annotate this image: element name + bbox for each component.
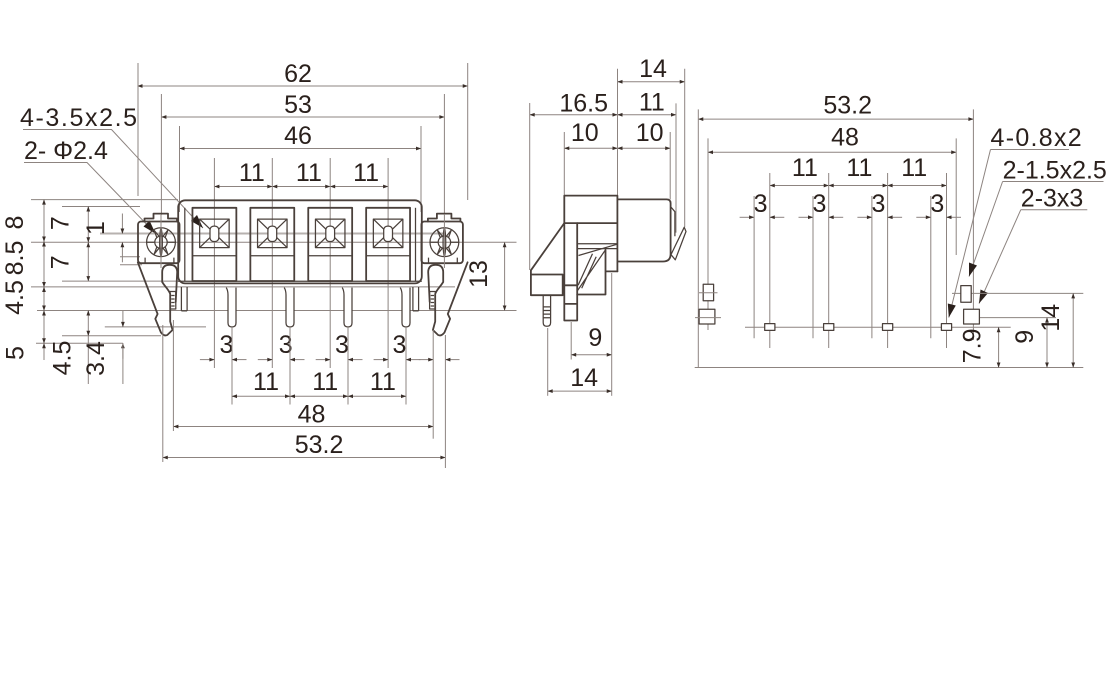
pin side [543, 295, 550, 326]
pin 3 [342, 288, 352, 327]
center reference extension [617, 69, 619, 196]
svg-text:10: 10 [571, 119, 599, 147]
left tall pad 1.5x2.5 [703, 284, 713, 301]
dim 16.5 [530, 90, 618, 270]
svg-text:11: 11 [353, 159, 379, 187]
svg-text:13: 13 [465, 260, 493, 288]
right square pad 3x3 [964, 309, 980, 324]
svg-text:4-3.5x2.5: 4-3.5x2.5 [20, 104, 139, 132]
dim 9 [1011, 318, 1047, 368]
dim 53.2 [698, 92, 973, 368]
dim 10 left [564, 119, 617, 196]
svg-text:11: 11 [901, 154, 927, 182]
wedge bracket [531, 223, 564, 295]
svg-text:53: 53 [284, 91, 312, 119]
dim 53.2 bottom [163, 325, 446, 468]
dims 11 x3 [770, 154, 947, 348]
svg-text:14: 14 [570, 364, 598, 392]
tower [564, 196, 617, 272]
terminal module 4 [366, 208, 410, 281]
svg-text:3: 3 [813, 190, 827, 218]
svg-text:14: 14 [639, 55, 667, 83]
svg-text:2-1.5x2.5: 2-1.5x2.5 [1003, 157, 1107, 185]
left dim column B: 7 / 7 / 4.5 [47, 207, 89, 385]
svg-text:3: 3 [220, 331, 234, 359]
mounting leg side [564, 223, 577, 320]
svg-text:11: 11 [253, 368, 279, 396]
dim 11 [618, 88, 677, 232]
dim 9 bottom [571, 322, 612, 360]
svg-text:3.4: 3.4 [82, 341, 110, 376]
terminal module 1 [192, 208, 236, 281]
bottom reference line [695, 367, 1084, 369]
svg-text:9: 9 [1011, 330, 1039, 344]
svg-text:46: 46 [284, 122, 312, 150]
svg-text:9: 9 [588, 324, 602, 352]
svg-text:11: 11 [639, 88, 665, 116]
svg-text:7: 7 [47, 255, 75, 269]
label 2-1.5x2.5 with leader [969, 157, 1107, 277]
dim 62 [138, 60, 468, 200]
cylinder chamfer flange [671, 207, 675, 237]
dim 53 [161, 91, 444, 215]
dim 13 right [465, 242, 505, 310]
svg-text:53.2: 53.2 [823, 92, 872, 120]
svg-text:3: 3 [930, 190, 944, 218]
dim 48 [708, 123, 956, 330]
inner lines between tower and cylinder [577, 244, 617, 249]
body inner walls [184, 208, 186, 281]
helper line square pad right [979, 317, 1056, 319]
clamp flag [671, 227, 686, 259]
helper line pad top right [952, 292, 1083, 294]
svg-text:48: 48 [298, 401, 326, 429]
right tall pad 1.5x2.5 [961, 286, 971, 303]
dims 3 x4 [740, 190, 961, 338]
svg-text:10: 10 [636, 119, 664, 147]
pin pad 3 [883, 324, 893, 331]
svg-text:5: 5 [2, 346, 30, 360]
svg-text:11: 11 [792, 154, 818, 182]
body outline [178, 200, 422, 283]
left dim stack extension lines [31, 200, 517, 344]
svg-text:7: 7 [47, 216, 75, 230]
svg-text:3: 3 [871, 190, 885, 218]
label 2-3x3 with leader [979, 185, 1087, 304]
dim 10 right [618, 119, 671, 200]
svg-text:48: 48 [831, 123, 859, 151]
svg-text:2-3x3: 2-3x3 [1021, 185, 1084, 213]
svg-text:11: 11 [370, 368, 396, 396]
svg-text:7.9: 7.9 [958, 329, 986, 364]
left dim column C: 1 / 3.4 [82, 214, 123, 385]
svg-text:11: 11 [312, 368, 338, 396]
terminal module 3 [308, 208, 352, 281]
dim 48 bottom [173, 320, 433, 439]
svg-text:53.2: 53.2 [295, 431, 344, 459]
svg-text:62: 62 [284, 60, 312, 88]
svg-text:11: 11 [239, 159, 265, 187]
left square pad 3x3 [699, 309, 715, 324]
svg-text:3: 3 [279, 331, 293, 359]
terminal module 2 [250, 208, 294, 281]
svg-text:8: 8 [1, 216, 29, 230]
dims 3 x4 bottom [200, 327, 460, 405]
svg-text:14: 14 [1037, 304, 1065, 332]
svg-text:4.5: 4.5 [1, 280, 29, 315]
label 4-3.5x2.5 with leader to terminal 1 [20, 104, 203, 228]
pin 2 [284, 288, 294, 327]
pin pad 1 [765, 324, 775, 331]
label 4-0.8x2 with leader [948, 124, 1083, 317]
pad row baseline [745, 326, 1011, 328]
svg-text:4-0.8x2: 4-0.8x2 [991, 124, 1084, 152]
dim 14 bottom [548, 273, 612, 396]
svg-text:4.5: 4.5 [49, 341, 77, 376]
left dim column A: 8 / 8.5 / 4.5 / 5 [1, 200, 44, 360]
ear screw [147, 228, 176, 257]
svg-text:2- Φ2.4: 2- Φ2.4 [24, 137, 108, 165]
ear flange [421, 214, 463, 268]
pin pad 2 [824, 324, 834, 331]
pin 4 [400, 288, 410, 327]
dim 14 [1037, 293, 1073, 367]
svg-text:1: 1 [82, 221, 110, 235]
svg-text:11: 11 [846, 154, 872, 182]
svg-text:11: 11 [296, 159, 322, 187]
svg-text:8.5: 8.5 [1, 241, 29, 276]
dim 46 [180, 122, 422, 212]
latch lever diagonals [577, 244, 617, 291]
dim 7.9 [958, 327, 998, 367]
ear flange [138, 214, 180, 268]
right leg claw [428, 262, 467, 335]
left leg claw [138, 262, 177, 335]
svg-text:3: 3 [754, 190, 768, 218]
dims 11 x3 bottom [232, 368, 406, 396]
cylinder body [617, 199, 670, 261]
pin pad 4 [941, 324, 951, 331]
svg-text:3: 3 [393, 331, 407, 359]
svg-text:3: 3 [335, 331, 349, 359]
mid block [577, 250, 617, 295]
dim 14 top [618, 55, 685, 227]
svg-text:16.5: 16.5 [559, 90, 608, 118]
dims 11 x3 top [214, 158, 388, 368]
ear screw [430, 228, 459, 257]
pin 1 [226, 288, 236, 327]
skirt end blocks [181, 287, 187, 311]
label 2-phi2.4 with leader to ear screw [24, 137, 156, 234]
